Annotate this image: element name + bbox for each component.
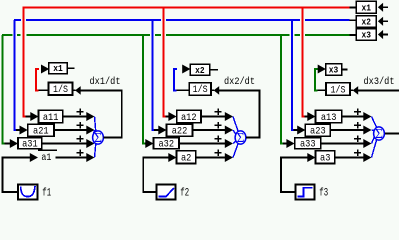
gain a12 — [168, 112, 176, 121]
gain a11 — [30, 112, 38, 121]
svg-text:dx2/dt: dx2/dt — [224, 76, 255, 88]
wire x2 bus (blue), hops over red drops — [14, 19, 21, 21]
wire blue drop to a23 — [291, 20, 293, 130]
svg-text:x3: x3 — [329, 64, 339, 75]
svg-text:1/S: 1/S — [331, 84, 346, 96]
wire green drop to a31 — [2, 35, 4, 143]
svg-text:a21: a21 — [33, 126, 49, 138]
sum S1 input arrows and + signs — [77, 111, 84, 113]
wire x3 bus (green), hops over blue+red drops — [2, 34, 13, 36]
svg-text:dx1/dt: dx1/dt — [90, 76, 121, 88]
wire x2 feedback: 1/S output up to x2 tag — [176, 89, 189, 91]
wire stubs into x1/x2/x3 display blocks — [350, 7, 357, 9]
wire x1 feedback: 1/S output up to x1 tag — [38, 89, 48, 91]
svg-text:a22: a22 — [172, 126, 188, 138]
svg-text:a23: a23 — [310, 126, 326, 138]
wire x3 feedback: 1/S output up to x3 tag — [317, 89, 326, 91]
icon f1 — [21, 186, 35, 197]
block x3 tag — [326, 64, 342, 75]
arrow into x3 display (right side) — [378, 30, 383, 39]
wire blue drop to a22 — [152, 20, 154, 130]
svg-text:x1: x1 — [53, 63, 63, 74]
sum block S3 — [374, 127, 385, 140]
svg-text:Σ: Σ — [94, 130, 102, 145]
svg-text:f3: f3 — [319, 187, 328, 199]
svg-text:a32: a32 — [158, 139, 174, 151]
sum S2 port legs — [233, 117, 238, 132]
svg-text:a33: a33 — [300, 139, 316, 151]
wire green drop to a32 — [142, 35, 144, 143]
gain a3 — [307, 153, 315, 162]
block x2 tag — [190, 64, 210, 75]
gain a2 — [168, 153, 176, 162]
gain a32 — [145, 139, 153, 148]
source block f3 — [296, 185, 315, 200]
wire f1 to gain a1 — [3, 158, 31, 193]
wire f3 to gain a3 — [281, 158, 308, 193]
block x1 (display, top right) — [356, 1, 376, 13]
gain a31 — [10, 139, 18, 148]
wire f2 to gain a2 — [143, 158, 169, 193]
svg-text:1/S: 1/S — [193, 84, 208, 96]
arrow into x1 display (right side) — [378, 3, 383, 12]
svg-text:a11: a11 — [43, 112, 59, 124]
svg-text:a31: a31 — [22, 139, 38, 151]
svg-text:x1: x1 — [362, 2, 372, 13]
gain a1 — [30, 153, 38, 162]
integrator 1/S #1 — [49, 83, 73, 96]
integrator 1/S #2 — [189, 83, 211, 96]
svg-text:x3: x3 — [362, 30, 372, 41]
source block f2 — [157, 185, 176, 200]
svg-text:a1: a1 — [41, 152, 51, 164]
sum S1 port legs — [95, 117, 96, 132]
sum block S2 — [235, 131, 246, 144]
svg-text:dx3/dt: dx3/dt — [364, 76, 395, 88]
icon f3 — [297, 188, 312, 197]
wire dx3/dt: sum S3 output to integrator 1/S — [385, 133, 399, 135]
sum S3 port legs — [372, 117, 377, 128]
arrow into x2 display (right side) — [378, 17, 383, 26]
gain a21 — [20, 126, 28, 135]
wire red drop to a11 — [23, 8, 25, 117]
wire dx1/dt: sum S1 output to integrator 1/S — [80, 90, 122, 137]
block x2 (display, top right) — [356, 16, 376, 27]
svg-text:x2: x2 — [362, 16, 372, 27]
svg-text:a12: a12 — [181, 112, 197, 124]
wire dx2/dt: sum S2 output to integrator 1/S — [218, 90, 259, 137]
gain a33 — [286, 139, 294, 148]
svg-text:1/S: 1/S — [53, 84, 68, 96]
sum block S1 — [93, 131, 104, 144]
gain a13 — [307, 112, 315, 121]
source block f1 — [18, 185, 38, 200]
sum S3 input arrows and + signs — [354, 111, 361, 113]
wire red drop to a12 — [163, 8, 165, 117]
integrator 1/S #3 — [326, 83, 350, 95]
wire blue drop to a21 — [14, 20, 16, 130]
wire green drop to a33 — [280, 35, 282, 143]
gain a23 — [297, 126, 305, 135]
icon f2 — [158, 188, 174, 196]
svg-text:f1: f1 — [42, 187, 51, 199]
block x1 tag — [49, 63, 67, 74]
wire x2 tag output stub — [210, 69, 218, 71]
block x3 (display, top right) — [356, 29, 376, 41]
svg-text:f2: f2 — [180, 187, 189, 199]
wire red drop to a13 — [302, 8, 304, 117]
svg-text:a2: a2 — [181, 152, 191, 164]
gain a22 — [158, 126, 166, 135]
svg-text:x2: x2 — [195, 65, 205, 76]
svg-text:a3: a3 — [320, 152, 330, 164]
sum S2 input arrows and + signs — [215, 111, 222, 113]
svg-text:a13: a13 — [321, 112, 337, 124]
wire x1 tag output stub — [67, 67, 75, 69]
wire x3 tag output stub — [342, 68, 348, 70]
wire x1 bus (red) — [23, 7, 350, 9]
